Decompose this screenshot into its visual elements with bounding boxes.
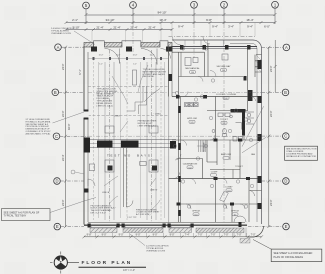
svg-text:21'-4": 21'-4" [96,25,103,29]
svg-text:24'-0": 24'-0" [269,199,273,206]
svg-text:4: 4 [132,3,135,8]
svg-text:21'-4": 21'-4" [148,25,155,29]
svg-text:D: D [55,179,58,184]
svg-text:21'-4": 21'-4" [113,25,120,29]
svg-text:AND MECHANIC TYPICAL: AND MECHANIC TYPICAL [26,132,52,135]
svg-text:7'-0": 7'-0" [224,234,229,237]
svg-text:⌜ LINE2: ⌜ LINE2 [154,113,162,116]
svg-text:LOBBY: LOBBY [225,187,233,189]
svg-text:INSTALLED BY CONTRACTOR: INSTALLED BY CONTRACTOR [286,155,316,158]
svg-text:TOILET: TOILET [220,119,228,121]
svg-text:SEE DETAIL: SEE DETAIL [143,75,156,78]
svg-text:3'-4": 3'-4" [228,25,234,29]
svg-text:24'-0": 24'-0" [61,63,65,70]
svg-text:34'-10": 34'-10" [106,18,115,22]
svg-text:LINE 'B': LINE 'B' [150,190,158,192]
svg-text:5'-0": 5'-0" [99,64,103,66]
svg-text:LOCKER / LOUNGE: LOCKER / LOUNGE [216,94,237,96]
svg-text:5'-0": 5'-0" [133,64,137,66]
svg-text:JAN: JAN [251,153,256,156]
svg-text:( SEE DTL 1/A-6 ): ( SEE DTL 1/A-6 ) [97,104,114,107]
svg-text:24'-0": 24'-0" [269,65,273,72]
svg-text:OVERHEAD DOORS: OVERHEAD DOORS [51,32,71,35]
svg-text:9'-0": 9'-0" [136,234,141,237]
svg-text:CALIBRATION: CALIBRATION [183,163,198,166]
svg-text:7'-0": 7'-0" [198,234,203,237]
svg-text:37'-0": 37'-0" [80,69,82,75]
svg-text:( SEE SHEET A-9 ): ( SEE SHEET A-9 ) [138,124,156,127]
svg-text:PLAN OF OFFICE AREAS: PLAN OF OFFICE AREAS [274,256,304,259]
svg-text:OVERHEAD DOORS: OVERHEAD DOORS [146,249,166,252]
svg-text:C: C [284,134,287,139]
svg-text:9'-0": 9'-0" [102,234,107,237]
svg-text:22'-0": 22'-0" [269,110,273,117]
svg-text:9'-4": 9'-4" [178,25,184,29]
svg-text:A: A [285,45,288,50]
svg-text:TOILET: TOILET [235,166,243,168]
svg-text:6'-0": 6'-0" [264,25,270,29]
svg-text:5: 5 [85,3,88,8]
svg-text:DIM. 3'-2" X 8'-0": DIM. 3'-2" X 8'-0" [91,213,107,215]
svg-text:9'-8": 9'-8" [206,18,212,22]
svg-text:10'-8": 10'-8" [99,55,104,57]
svg-text:AMPL RM: AMPL RM [221,153,231,156]
svg-text:⌜ LINE2: ⌜ LINE2 [113,114,121,117]
svg-text:SEE SHEET A-4 FOR ENLARGED: SEE SHEET A-4 FOR ENLARGED [274,252,313,255]
svg-text:10'-8": 10'-8" [133,55,138,57]
svg-text:E: E [285,224,288,229]
svg-text:2: 2 [223,3,226,8]
svg-text:STAIRWAY: STAIRWAY [203,141,206,152]
svg-text:MECHANICAL: MECHANICAL [185,67,200,70]
svg-text:92'-0": 92'-0" [67,123,71,130]
svg-text:9'-0": 9'-0" [153,234,158,237]
svg-text:C: C [55,134,58,139]
svg-text:OFFICE: OFFICE [231,211,240,213]
svg-text:22'-4": 22'-4" [61,154,65,161]
svg-text:7'-4": 7'-4" [185,234,190,237]
svg-text:SECURE BAY: SECURE BAY [217,65,231,68]
svg-text:COMP: COMP [211,172,218,174]
svg-text:19'-4": 19'-4" [159,18,166,22]
svg-text:E: E [56,224,59,229]
svg-text:3: 3 [193,3,196,8]
svg-text:TEST NO BAYS: TEST NO BAYS [107,154,152,158]
svg-text:9'-0": 9'-0" [119,234,124,237]
svg-text:1'-10" TYP: 1'-10" TYP [127,217,137,219]
svg-text:A: A [57,45,60,50]
svg-text:7'-0": 7'-0" [237,234,242,237]
svg-text:9'-4": 9'-4" [212,25,218,29]
svg-text:7'-0": 7'-0" [251,234,256,237]
svg-text:1/8" = 1'-0": 1/8" = 1'-0" [123,269,135,272]
svg-text:9'-8": 9'-8" [87,234,92,237]
svg-text:94'-10": 94'-10" [158,11,167,15]
svg-text:16'-4": 16'-4" [246,18,253,22]
svg-text:B: B [54,90,57,95]
svg-text:2'-1": 2'-1" [72,18,78,22]
svg-text:TYPICAL TEST BAY: TYPICAL TEST BAY [4,215,27,218]
svg-text:10'-8": 10'-8" [116,55,121,57]
svg-text:D: D [284,179,287,184]
svg-text:B: B [284,90,287,95]
svg-text:OFFICE: OFFICE [192,211,201,213]
svg-text:24'-0": 24'-0" [61,199,65,206]
svg-text:1: 1 [274,3,277,8]
svg-text:22'-0": 22'-0" [61,110,65,117]
svg-text:A-7 FOR SYM.): A-7 FOR SYM.) [136,213,151,216]
svg-text:21'-4": 21'-4" [130,25,137,29]
svg-text:9'-0": 9'-0" [170,234,175,237]
svg-text:APPL RM: APPL RM [187,117,197,120]
svg-text:9'-4": 9'-4" [247,25,253,29]
svg-text:FLOOR PLAN: FLOOR PLAN [82,260,133,266]
svg-text:LINE 'A': LINE 'A' [102,191,110,194]
svg-text:7'-0": 7'-0" [211,234,216,237]
